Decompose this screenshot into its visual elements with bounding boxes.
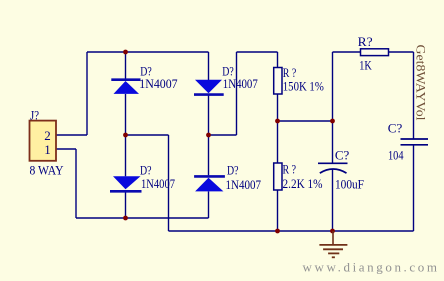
wire right vertical upper: [413, 52, 415, 139]
wire R150K bottom to R2.2K top: [277, 94, 279, 163]
wire pin2 stub: [56, 134, 87, 136]
wire x332 vertical upper: [332, 52, 334, 163]
wire diode column1 top: [125, 52, 127, 79]
diode D? (lower-left) body: [110, 176, 142, 191]
svg-text:1N4007: 1N4007: [141, 176, 175, 191]
svg-text:Get8WAYVol: Get8WAYVol: [414, 45, 429, 121]
junction dot R2.2K bottom / ground rail: [275, 229, 280, 234]
junction dot x332/y121: [330, 119, 335, 124]
svg-text:1N4007: 1N4007: [223, 76, 258, 91]
diode D? (upper-right) body: [194, 80, 224, 95]
wire right vertical lower: [413, 146, 415, 232]
junction dot col2 mid: [206, 133, 211, 138]
svg-text:1N4007: 1N4007: [226, 177, 262, 192]
wire top rail 2: [237, 51, 278, 53]
wire diode column2 middle: [208, 96, 210, 176]
svg-text:104: 104: [388, 147, 404, 162]
wire node mid to left drop: [126, 134, 169, 136]
svg-text:www.diangon.com: www.diangon.com: [303, 260, 438, 275]
wire riser vertical: [236, 52, 238, 135]
svg-text:D?: D?: [227, 162, 239, 177]
junction dot rail1/col1: [123, 50, 128, 55]
svg-text:1K: 1K: [359, 57, 372, 72]
ground symbol: [319, 231, 347, 257]
wire R2.2K bottom lead: [277, 190, 279, 231]
wire pin2 vertical: [86, 52, 88, 135]
connector J? 8 WAY: [30, 121, 57, 161]
svg-text:2.2K 1%: 2.2K 1%: [283, 176, 323, 191]
capacitor C? 100uF body: [318, 163, 348, 173]
svg-text:D?: D?: [140, 162, 152, 177]
wire diode column1 bottom: [125, 192, 127, 218]
wire ground rail: [169, 230, 414, 232]
svg-text:1N4007: 1N4007: [139, 76, 178, 91]
svg-text:J?: J?: [30, 108, 39, 123]
wire C100uF bottom lead: [332, 169, 334, 231]
wire diode column1 middle: [125, 94, 127, 176]
wire R1K left lead: [333, 51, 361, 53]
svg-text:2: 2: [44, 128, 51, 143]
junction dot col1 mid: [123, 133, 128, 138]
resistor R? 150K body: [274, 68, 282, 95]
wire diode column2 top: [208, 52, 210, 80]
wire node mid2 to riser: [209, 134, 237, 136]
svg-text:8 WAY: 8 WAY: [30, 162, 65, 177]
resistor R? 1K body: [361, 49, 389, 56]
svg-text:1: 1: [44, 142, 51, 157]
wire bottom rail A: [76, 217, 209, 219]
wire node rail y121: [278, 120, 333, 122]
capacitor C? 104 body: [401, 139, 429, 145]
junction dot C100uF bottom / ground rail: [330, 229, 335, 234]
resistor R? 2.2K body: [274, 163, 282, 190]
wire left drop vertical: [168, 135, 170, 231]
wire pin1 stub: [56, 148, 76, 150]
wire pin1 vertical: [75, 149, 77, 218]
junction dot R150K bottom: [275, 119, 280, 124]
svg-text:R ?: R ?: [283, 161, 297, 176]
svg-text:C?: C?: [388, 120, 403, 135]
wire top rail 1: [87, 51, 209, 53]
wire R1K right lead: [389, 51, 414, 53]
wire diode column2 bottom: [208, 192, 210, 219]
diode D? (upper-left) body: [111, 80, 140, 94]
svg-text:C?: C?: [335, 147, 350, 162]
svg-text:100uF: 100uF: [335, 177, 364, 192]
wire R150K top lead: [277, 52, 279, 68]
svg-text:R?: R?: [358, 34, 373, 49]
diode D? (lower-right) body: [194, 176, 225, 191]
junction dot col1 bottom: [123, 216, 128, 221]
svg-text:150K 1%: 150K 1%: [283, 78, 324, 93]
